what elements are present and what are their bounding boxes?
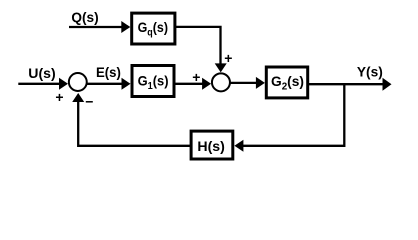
- svg-text:+: +: [55, 89, 63, 105]
- svg-text:Y(s): Y(s): [357, 63, 383, 79]
- svg-text:E(s): E(s): [96, 64, 121, 80]
- svg-text:+: +: [192, 69, 200, 85]
- svg-text:+: +: [224, 50, 232, 66]
- svg-text:H(s): H(s): [197, 138, 225, 154]
- svg-text:−: −: [85, 94, 93, 110]
- svg-text:U(s): U(s): [28, 65, 55, 81]
- svg-text:Q(s): Q(s): [71, 9, 98, 25]
